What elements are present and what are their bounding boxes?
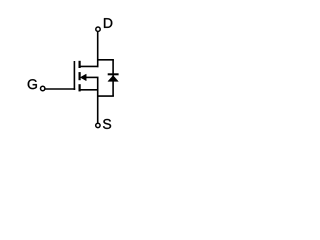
transistor Q1 (N-channel MOSFET with body diode) bbox=[0, 0, 172, 149]
MOSFET channel bar bottom bbox=[78, 84, 80, 91]
label S (source) bbox=[103, 119, 111, 129]
diode D1 anode triangle (points up) bbox=[108, 76, 118, 82]
wire diode branch vertical bbox=[112, 60, 114, 96]
wire bottom bar to source stem bbox=[80, 89, 99, 91]
terminal pin S bbox=[96, 123, 100, 127]
wire arrow to source stem bbox=[86, 76, 99, 78]
MOSFET channel bar middle bbox=[78, 72, 80, 80]
wire gate lead bbox=[45, 88, 75, 90]
MOSFET channel bar top bbox=[78, 61, 80, 68]
MOSFET gate plate bbox=[73, 61, 75, 90]
wire drain stem bbox=[97, 32, 99, 68]
label D (drain) bbox=[104, 18, 112, 28]
MOSFET body arrow (points left to channel) bbox=[80, 74, 86, 81]
label G (gate) bbox=[28, 79, 37, 89]
terminal pin G bbox=[41, 86, 45, 90]
wire diode branch bottom rail bbox=[98, 95, 114, 97]
wire diode branch top rail bbox=[98, 59, 114, 61]
wire source stem bbox=[97, 77, 99, 123]
diode D1 cathode bar bbox=[108, 73, 119, 75]
terminal pin D bbox=[96, 27, 100, 31]
wire top bar to drain stem bbox=[80, 65, 99, 67]
